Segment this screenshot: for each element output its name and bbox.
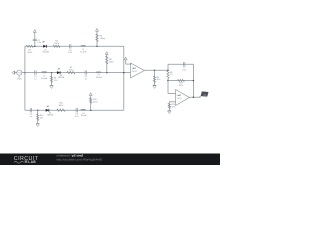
inductor L4 [81, 109, 86, 110]
node junction row1 / R4 pull-up [96, 46, 98, 48]
wire - R5 branch vertical [154, 70, 156, 85]
wire - OA2 inverting input lead [168, 92, 176, 94]
svg-text:1 kHz: 1 kHz [17, 79, 22, 81]
capacitor C4 [85, 70, 86, 74]
label R5 10k [157, 77, 161, 81]
wire - OA2 non-inverting input lead [169, 102, 175, 111]
power flag V+ above C2 branch [33, 29, 36, 32]
ground below R10 [36, 123, 39, 126]
wire - R4 branch vertical [96, 31, 98, 46]
CircuitLab logo [14, 156, 39, 164]
svg-text:100 k: 100 k [109, 62, 114, 64]
wire - source left lead [15, 72, 17, 74]
wire - left input bus vertical [24, 46, 26, 110]
svg-text:47u: 47u [75, 116, 78, 118]
svg-text:1N4148: 1N4148 [47, 115, 53, 117]
ground below R5 [153, 85, 156, 88]
label R4 1Meg [100, 36, 105, 40]
node junction OA2 output / feedback [193, 96, 195, 98]
ground below R6 [50, 85, 53, 88]
node junction row1 / C2 branch [34, 46, 36, 48]
resistor R1 [26, 45, 33, 47]
capacitor C1 [35, 70, 36, 74]
svg-text:out: out [203, 93, 206, 96]
node junction mid rail / right vertical [193, 80, 195, 82]
label R7 100k [69, 67, 74, 71]
resistor R13 [168, 103, 170, 108]
label R11 100k [58, 103, 63, 107]
svg-text:10 mH: 10 mH [96, 77, 102, 79]
wire - R6 branch vertical [51, 73, 53, 86]
inductor L1 [81, 45, 86, 46]
node junction - input bus / source tap [24, 72, 26, 74]
label R12 100k [93, 99, 98, 103]
svg-text:10 k: 10 k [54, 80, 58, 82]
wire - C2 branch vertical [34, 32, 36, 46]
svg-text:10 k: 10 k [157, 79, 161, 81]
label C6 value [75, 114, 79, 118]
node junction summing bus / OA1 input [123, 72, 125, 74]
svg-text:10 k: 10 k [40, 118, 44, 120]
label C5 value [30, 114, 33, 118]
power flag V+ above R4 [96, 28, 99, 31]
svg-text:1N4148: 1N4148 [42, 51, 48, 53]
svg-text:1u: 1u [34, 78, 36, 80]
node junction row3 / R10 to ground [37, 109, 39, 111]
capacitor C3 [70, 44, 71, 48]
wire - top feedback rail [168, 63, 193, 65]
wire - row3 horizontal [25, 109, 124, 111]
ground - source return (left-pointing) [12, 71, 15, 74]
label AF above diode D3 [46, 105, 50, 108]
label C2 value [37, 40, 41, 44]
wire - OA1 output [144, 69, 168, 71]
wire - row1 horizontal [25, 45, 124, 47]
power flag V+ above R12 [89, 93, 92, 96]
svg-text:LM741: LM741 [177, 98, 182, 100]
node junction row2 / R8 pull-up [106, 72, 108, 74]
resistor R5 [153, 76, 155, 82]
wire - R10 branch vertical [37, 110, 39, 123]
wire - middle feedback rail [168, 80, 193, 82]
footer text line 2 - url [57, 157, 103, 161]
label C1 value [34, 76, 37, 80]
label R13 10k [172, 104, 176, 108]
label AF above diode D1 [41, 41, 45, 44]
capacitor C7 (feedback) [184, 62, 185, 66]
op-amp OA1 [131, 63, 145, 78]
svg-text:100 k: 100 k [179, 85, 184, 87]
label C3 value [68, 50, 72, 54]
resistor R4 (pull-up) [96, 34, 98, 42]
label R2 100k [54, 40, 59, 44]
svg-text:0.1u: 0.1u [182, 69, 186, 71]
label R14 100k [179, 83, 184, 87]
label L4 value [81, 113, 87, 117]
resistor R2 [53, 45, 60, 47]
label D1 1N4148 [42, 49, 48, 53]
label R6 10k [54, 78, 58, 82]
label D2 1N4148 [58, 75, 64, 79]
svg-text:100 k: 100 k [58, 105, 63, 107]
svg-text:LAB: LAB [28, 160, 36, 164]
svg-text:100 k: 100 k [69, 70, 74, 72]
svg-text:1u: 1u [85, 78, 87, 80]
label L3 value [96, 75, 102, 79]
svg-text:LM741: LM741 [132, 71, 137, 73]
wire - right feedback vertical [192, 64, 194, 97]
svg-text:1 Meg: 1 Meg [100, 38, 105, 40]
wire - OA1 V+ supply lead [126, 60, 132, 65]
diode D3 [46, 109, 49, 112]
capacitor C6 [76, 108, 77, 112]
diode D2 [57, 71, 60, 74]
footer text line 1 - user / circuit name [57, 154, 84, 158]
net flag out [199, 91, 209, 97]
resistor R7 [67, 71, 75, 73]
label R1 100k [27, 50, 32, 54]
svg-text:100 k: 100 k [93, 102, 98, 104]
svg-text:0.1u: 0.1u [68, 52, 72, 54]
node junction row2 / R6 to ground [51, 72, 53, 74]
svg-text:1N4148: 1N4148 [58, 77, 64, 79]
resistor R8 (pull-up) [106, 56, 108, 64]
label D3 1N4148 [47, 113, 53, 117]
wire - OA2 output [189, 96, 200, 98]
resistor R12 (pull-up) [90, 98, 92, 104]
label R9 value [170, 72, 173, 76]
inductor L2 [42, 72, 47, 73]
node junction OA1 output / R5 [154, 69, 156, 71]
wire - summing bus vertical (rows 1-3 to OA1) [123, 46, 125, 110]
resistor R6 [50, 76, 52, 82]
label C4 value [85, 76, 88, 80]
wire - row2 horizontal [25, 72, 131, 74]
label C7 value [182, 67, 186, 71]
diode D1 [43, 45, 46, 48]
svg-text:0.1u: 0.1u [37, 42, 41, 44]
svg-text:1 k: 1 k [170, 74, 173, 76]
resistor R11 [57, 109, 65, 111]
resistor R10 [37, 114, 39, 121]
ground below R13 [168, 111, 171, 114]
svg-text:10 k: 10 k [172, 107, 176, 109]
label L1 value [80, 49, 86, 53]
wire - R8 branch vertical [106, 54, 108, 73]
power flag V+ above R8 [105, 52, 108, 55]
node junction A [167, 69, 169, 71]
node junction row3 / R12 pull-up [90, 109, 92, 111]
svg-text:100 k: 100 k [54, 43, 59, 45]
wire - node A vertical (x=168) [167, 64, 169, 93]
wire - R12 branch vertical [90, 95, 92, 110]
resistor R14 (feedback) [178, 79, 185, 81]
svg-text:1u: 1u [30, 116, 32, 118]
label R8 100k [109, 59, 114, 63]
resistor R9 (series, vertical) [167, 71, 169, 79]
svg-text:100 k: 100 k [27, 52, 32, 54]
label L2 value [41, 76, 47, 80]
capacitor C5 [30, 108, 31, 112]
voltage source V1 [17, 70, 25, 75]
svg-text:10 mH: 10 mH [81, 115, 87, 117]
power flag V+ for OA1 [124, 57, 127, 60]
node junction inverting node / mid rail [167, 80, 169, 82]
footer bar [0, 154, 220, 166]
op-amp OA2 [176, 90, 190, 106]
capacitor C2 (series in branch) [33, 39, 37, 40]
label AF above diode D2 [57, 67, 61, 70]
svg-text:http://circuitlab.com/c/45a4cg: http://circuitlab.com/c/45a4cg5b4e65 [57, 157, 103, 161]
inductor L3 [96, 72, 101, 73]
label V1 value [17, 76, 22, 80]
svg-text:10 mH: 10 mH [80, 51, 86, 53]
svg-text:10 mH: 10 mH [41, 78, 47, 80]
label R10 10k [40, 115, 44, 119]
